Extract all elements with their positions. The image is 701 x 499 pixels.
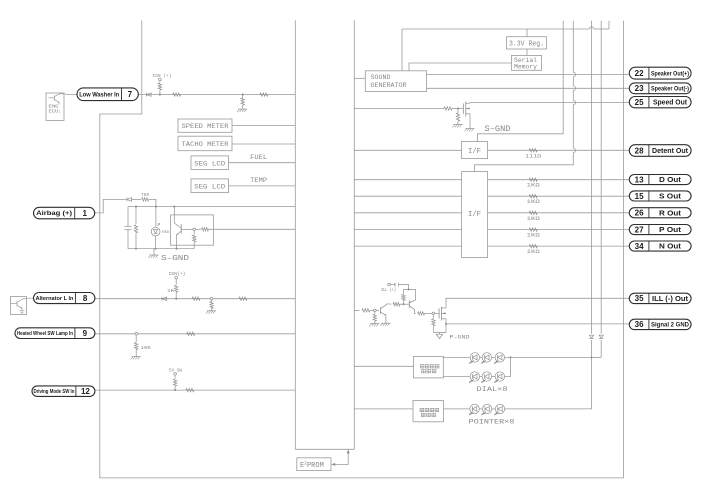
resistor opto base pulldown (193, 231, 195, 235)
resistor driving mode series (186, 388, 194, 391)
resistor 1K S out (529, 195, 537, 198)
svg-text:S–GND: S–GND (485, 125, 511, 134)
svg-text:E2PROM: E2PROM (300, 461, 324, 470)
svg-text:Detent Out: Detent Out (652, 146, 689, 155)
resistor alternator series 2 (239, 297, 247, 300)
wire I/F2 N out to pill (488, 245, 630, 247)
wire (492, 408, 495, 410)
diode on vertical x=591.5 (589, 335, 593, 338)
wire airbag pill to top line (95, 199, 126, 213)
svg-text:ECU↓: ECU↓ (49, 108, 62, 114)
wire heated wheel line to MCU (95, 333, 295, 335)
LED dial row2 b (482, 372, 491, 381)
wire MCU to I/F2 line S (354, 195, 461, 197)
block SEG LCD temp (191, 179, 229, 193)
ground Q1 emitter (381, 322, 390, 324)
block Serial Memory (512, 55, 542, 70)
ground ILL base (370, 323, 379, 325)
block TACHO METER (178, 136, 232, 151)
svg-text:15: 15 (635, 192, 644, 201)
transistor Q2 PNP ILL (408, 301, 410, 308)
resistor alternator pulldown (211, 300, 213, 302)
LED pointer c (495, 404, 504, 413)
svg-text:SPEED METER: SPEED METER (182, 123, 229, 131)
connector pill 9 Heated Wheel SW Lamp In (15, 328, 95, 339)
node airbag opto junction (173, 206, 175, 208)
LED dial row1 a (470, 353, 479, 362)
wire dial driver out row1 (443, 356, 470, 358)
block alternator symbol (11, 297, 27, 315)
node opto base junction (193, 228, 196, 231)
wire 3.3V reg top lead (401, 29, 403, 71)
wire stub vertical x=609 (608, 21, 610, 29)
resistor 1K R out (529, 211, 537, 214)
diode washer series (147, 93, 152, 97)
svg-text:ILL (-) Out: ILL (-) Out (652, 294, 689, 303)
node gate junction (457, 107, 459, 109)
resistor Q1-Q2 coupling (393, 303, 400, 306)
block dial LED driver (414, 356, 444, 378)
resistor R 111ohm detent (529, 149, 537, 152)
wire speaker out(-) line (427, 87, 630, 89)
wire driving mode line to MCU (95, 389, 295, 391)
wire I/F2 P out to pill (488, 229, 630, 231)
node 5V SW terminal (174, 373, 177, 376)
svg-text:RED: RED (162, 231, 169, 235)
wire Q2 collector to gate resistor (414, 312, 416, 314)
node heated wheel junction (135, 333, 138, 336)
wire signal 2 gnd line to pill 36 (446, 323, 629, 325)
svg-text:Airbag (+): Airbag (+) (36, 210, 72, 217)
svg-text:R Out: R Out (659, 208, 682, 217)
resistor heated wheel series (187, 332, 195, 335)
wire MCU to I/F2 line N (354, 245, 461, 247)
node dial row junction x=510.5 (509, 356, 511, 358)
svg-text:7: 7 (128, 90, 133, 99)
resistor ILL gate (418, 312, 425, 315)
LED dial row2 c (495, 372, 504, 381)
node washer junction (159, 94, 161, 96)
node alternator junction (175, 298, 177, 300)
wire S-GND bus vertical x=563 (478, 21, 564, 142)
svg-text:1KΩ: 1KΩ (527, 215, 541, 222)
wire source to ground (469, 114, 471, 129)
svg-text:ILL (+): ILL (+) (381, 287, 396, 293)
connector pill 1 Airbag (+) (34, 207, 95, 219)
wire tacho meter to MCU (232, 143, 295, 145)
connector pill 27 P Out (629, 225, 691, 235)
svg-text:I/F: I/F (468, 148, 481, 156)
connector pill 25 Speed Out (629, 97, 691, 108)
svg-text:1: 1 (82, 209, 87, 218)
svg-text:POINTER×8: POINTER×8 (469, 419, 515, 426)
wire MCU to I/F2 line P (354, 229, 461, 231)
node driving mode junction (174, 389, 176, 391)
svg-text:Speaker Out(+): Speaker Out(+) (651, 70, 689, 77)
ground alternator (207, 310, 216, 312)
wire speed meter to MCU (232, 125, 295, 127)
connector pill 12 Driving Mode SW In (32, 386, 95, 397)
wire airbag bias rail (128, 206, 295, 208)
node alternator divider junction (210, 297, 213, 300)
wire MCU to I/F2 line R (354, 212, 461, 214)
block I/F U4 (462, 172, 488, 258)
transistor Q3 speed MOSFET (462, 104, 464, 115)
svg-text:SEG LCD: SEG LCD (194, 183, 225, 191)
node ILL base junction (374, 309, 377, 312)
svg-text:FUEL: FUEL (250, 154, 267, 162)
wire I/F2 D out to pill (488, 179, 630, 181)
connector pill 36 Signal 2 GND (629, 319, 691, 329)
wire ILL drain to pill 35 (446, 298, 629, 308)
resistor gate pulldown (457, 109, 459, 114)
wire MCU to speed gate resistor (354, 108, 444, 110)
svg-text:23: 23 (635, 84, 644, 93)
wire bus vertical x=573 with hops to I/F2 top (572, 21, 574, 73)
resistor washer series 1 (173, 93, 181, 96)
resistor ILL gate pulldown (432, 315, 434, 319)
svg-text:Low Washer In: Low Washer In (79, 91, 119, 98)
LED dial row1 b (482, 353, 491, 362)
wire (480, 408, 483, 410)
wire I/F1 output to pill 28 (488, 149, 630, 151)
wire top horizontal rail y=29 (402, 28, 589, 30)
diode airbag series (127, 198, 132, 202)
connector pill 22 Speaker Out(+) (629, 67, 691, 79)
wire pointer driver out (443, 408, 469, 410)
resistor 1K N out (529, 244, 537, 247)
LED pointer a (470, 404, 479, 413)
resistor speed gate (444, 107, 452, 110)
wire I/F2 R out to pill (488, 212, 630, 214)
wire (492, 376, 495, 378)
svg-text:SEG LCD: SEG LCD (194, 160, 225, 168)
MCU block left edge (294, 20, 296, 449)
wire seg lcd temp to MCU (229, 185, 296, 187)
MCU block right edge (353, 20, 355, 449)
connector pill 8 Alternator L In (34, 293, 95, 304)
wire washer line pill7 to MCU (138, 94, 295, 96)
block 3.3V Reg. (507, 37, 547, 49)
wire 3.3V reg to serial memory (526, 49, 528, 55)
svg-text:Heated Wheel SW Lamp In: Heated Wheel SW Lamp In (17, 331, 73, 337)
node ILL gate junction (432, 312, 435, 315)
wire LED supply vertical x=591.5 (591, 21, 593, 334)
svg-text:IGN(+): IGN(+) (169, 271, 186, 277)
svg-text:D Out: D Out (659, 175, 682, 184)
wire MCU to I/F1 (354, 149, 461, 151)
connector pill 35 ILL (-) Out (629, 293, 691, 303)
svg-text:P Out: P Out (659, 225, 682, 234)
diode on vertical x=601.2 (599, 335, 603, 338)
wire dial driver out row2 (443, 376, 470, 378)
svg-text:3.3V Reg.: 3.3V Reg. (509, 41, 544, 49)
wire seg lcd fuel to MCU (229, 162, 296, 164)
LED airbag red (155, 207, 157, 228)
svg-text:Memory: Memory (514, 63, 537, 70)
resistor ILL base pulldown (374, 312, 376, 315)
svg-text:N Out: N Out (659, 242, 682, 251)
wire board frame left/bottom/right boundary (100, 21, 624, 478)
wire (480, 376, 482, 378)
ground heated wheel (132, 356, 141, 358)
resistor airbag bias (135, 207, 137, 224)
svg-text:34: 34 (635, 242, 644, 251)
resistor driving mode pullup (174, 375, 176, 379)
block pointer LED driver (413, 400, 443, 421)
wire ILL source to signal2 gnd line (445, 319, 447, 324)
connector pill 15 S Out (629, 191, 691, 201)
wire speaker out(+) line (427, 74, 630, 76)
resistor alternator pullup 1K (175, 279, 177, 285)
resistor washer series 2 (260, 93, 268, 96)
wire MCU to I/F2 line D (354, 179, 461, 181)
block SEG LCD fuel (191, 156, 229, 170)
node washer filter junction (242, 94, 244, 96)
svg-text:S–GND: S–GND (161, 255, 189, 263)
LED pointer b (482, 404, 491, 413)
svg-text:36: 36 (635, 320, 644, 329)
resistor heated wheel pulldown 10K (135, 335, 137, 342)
connector pill 13 D Out (629, 175, 691, 185)
svg-text:IGN (+): IGN (+) (153, 73, 172, 79)
svg-text:12: 12 (81, 387, 90, 396)
svg-text:Alternator L In: Alternator L In (35, 296, 73, 302)
wire LED supply vertical x=601.2 (600, 21, 602, 334)
svg-text:1KΩ: 1KΩ (527, 198, 541, 205)
ground speed source (466, 128, 475, 130)
resistor 1K P out (529, 228, 537, 231)
svg-text:DIAL×8: DIAL×8 (477, 386, 508, 393)
block I/F U3 (462, 142, 488, 159)
wire airbag ground rail (128, 248, 194, 250)
wire MCU to ILL base resistor (354, 309, 359, 311)
svg-text:25: 25 (635, 98, 644, 107)
transistor M2 ILL MOSFET (438, 309, 440, 319)
wire ILL gnd rail (433, 332, 439, 334)
wire dial row1 to supply corner (592, 356, 602, 358)
block photocoupler PC1 (171, 215, 214, 245)
wire pointer row to supply (505, 357, 592, 409)
svg-text:TACHO METER: TACHO METER (182, 141, 229, 149)
connector pill 23 Speaker Out(-) (629, 83, 691, 94)
svg-text:1K: 1K (167, 290, 175, 294)
wire airbag top to bias rail (149, 199, 156, 206)
connector pill 28 Detent Out (629, 145, 691, 157)
svg-text:Speed Out: Speed Out (653, 98, 688, 107)
node ILL source junction (445, 323, 447, 325)
wire alternator line to MCU (95, 298, 295, 300)
node ILL+ terminal (388, 283, 391, 286)
svg-text:Signal 2 GND: Signal 2 GND (651, 322, 689, 329)
wire dial row2 up to row1 (505, 357, 511, 376)
svg-text:S Out: S Out (659, 191, 682, 200)
wire ENG ECU to pill 7 (60, 93, 78, 96)
svg-text:8: 8 (83, 294, 88, 303)
ground speed gate (454, 124, 463, 126)
wire MCU to pointer driver (354, 408, 413, 410)
wire I/F2 S out to pill (488, 195, 630, 197)
wire Q1 collector to Q2 base (387, 303, 391, 305)
resistor washer filter (242, 95, 244, 99)
block E2PROM (297, 458, 331, 471)
wire alternator box to pill 8 (23, 297, 34, 300)
connector pill 34 N Out (629, 241, 691, 251)
block ENG ECU (46, 93, 64, 121)
block SPEED METER (178, 119, 232, 132)
svg-text:TEMP: TEMP (250, 177, 267, 185)
svg-text:SOUND: SOUND (371, 74, 391, 81)
node airbag LED junction (155, 206, 157, 208)
svg-text:35: 35 (635, 294, 644, 303)
svg-text:1KΩ: 1KΩ (527, 182, 541, 189)
node Q2 base junction (402, 303, 404, 305)
node dial supply junction (590, 356, 592, 358)
svg-text:I/F: I/F (468, 211, 481, 219)
ground P-GND triangle (439, 333, 441, 335)
svg-text:Driving Mode SW In: Driving Mode SW In (33, 389, 74, 395)
resistor washer pullup (159, 81, 161, 83)
wire speed drain to pill 25 (470, 102, 629, 104)
diode alternator series (162, 297, 167, 301)
wire (492, 356, 495, 358)
svg-text:9: 9 (83, 329, 88, 338)
wire opto output to MCU (209, 228, 296, 230)
svg-text:13: 13 (635, 175, 644, 184)
ground airbag S-GND (153, 249, 155, 255)
svg-text:22: 22 (635, 69, 644, 78)
block SOUND GENERATOR U2 (365, 71, 426, 92)
connector pill 7 Low Washer In (77, 88, 138, 101)
node IGN washer terminal (159, 78, 162, 81)
MCU block bottom edge (295, 448, 354, 450)
svg-text:26: 26 (635, 209, 644, 218)
connector pill 26 R Out (629, 208, 691, 218)
svg-text:27: 27 (635, 225, 644, 234)
resistor opto output (196, 228, 202, 230)
transistor photocoupler NPN (173, 207, 175, 224)
resistor 1K D out (529, 178, 537, 181)
wire (480, 356, 482, 358)
transistor Q1 NPN ILL (380, 307, 382, 313)
svg-text:10K: 10K (141, 347, 152, 351)
node airbag resistor junction (135, 206, 137, 208)
resistor ILL base (362, 309, 370, 312)
LED dial row1 c (495, 353, 504, 362)
wire ILL+ to Q2 emitter (399, 285, 409, 290)
svg-text:GENERATOR: GENERATOR (371, 82, 407, 89)
wire E2PROM to MCU with arrows (333, 451, 348, 464)
svg-text:P–GND: P–GND (450, 335, 470, 341)
wire MCU to dial driver (354, 365, 413, 367)
wire dial row1 to junction (505, 356, 592, 358)
wire MCU to sound generator (354, 77, 365, 79)
resistor alternator series (192, 297, 200, 300)
svg-text:111Ω: 111Ω (525, 152, 542, 159)
capacitor airbag filter (125, 225, 132, 227)
wire serial memory to sound generator top (409, 63, 512, 71)
ground washer filter (238, 108, 247, 110)
svg-text:1KΩ: 1KΩ (527, 248, 541, 255)
svg-text:Speaker Out(-): Speaker Out(-) (651, 86, 689, 93)
svg-text:28: 28 (635, 146, 644, 155)
svg-text:1KΩ: 1KΩ (527, 232, 541, 239)
node IGN alternator terminal (175, 276, 178, 279)
fuse ILL+ feed (395, 283, 399, 286)
node ILL+ junction (408, 288, 410, 290)
LED dial row2 a (470, 372, 479, 381)
resistor 750 airbag (142, 198, 149, 201)
resistor Q2 emitter-base (403, 300, 405, 304)
